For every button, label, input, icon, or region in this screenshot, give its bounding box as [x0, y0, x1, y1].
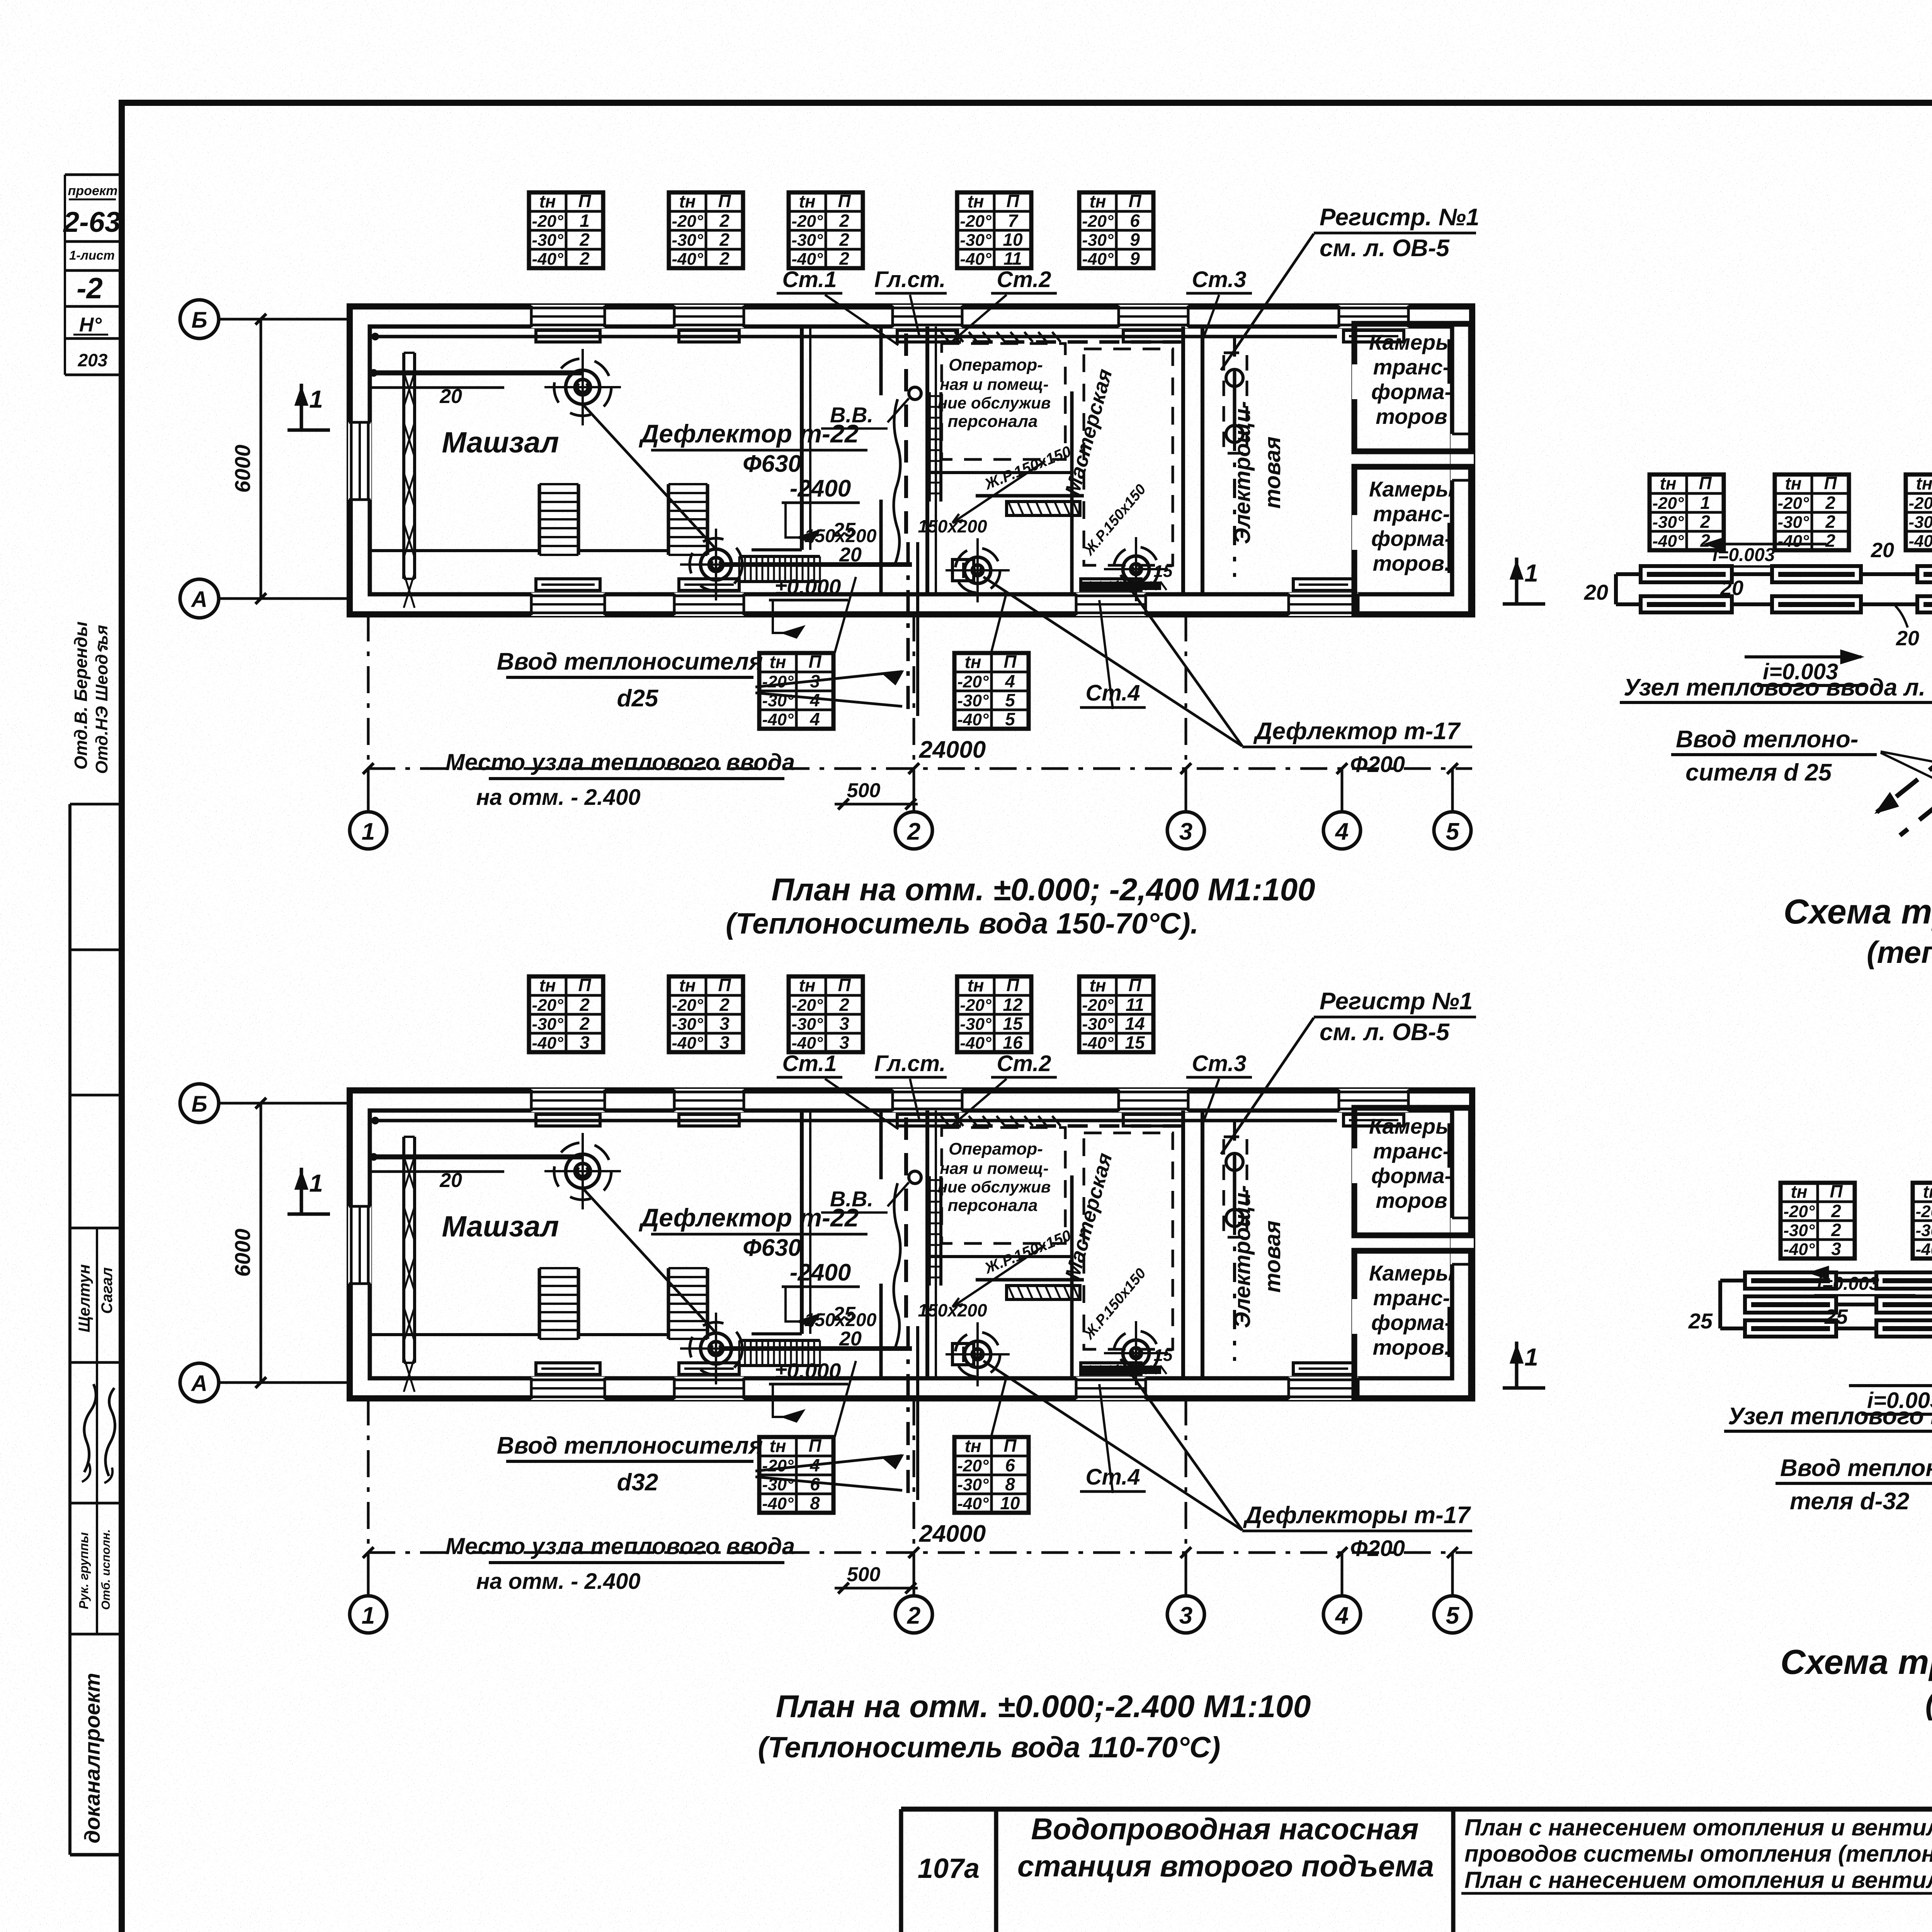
- svg-text:20: 20: [1896, 627, 1919, 650]
- svg-text:2: 2: [719, 248, 730, 269]
- svg-text:-30°: -30°: [1777, 513, 1809, 532]
- svg-text:Н°: Н°: [79, 314, 102, 336]
- svg-text:-40°: -40°: [762, 1494, 794, 1513]
- svg-text:Узел теплового ввода л. ОВ-3: Узел теплового ввода л. ОВ-3: [1728, 1403, 1932, 1430]
- svg-text:tн: tн: [964, 652, 981, 672]
- svg-text:-20°: -20°: [762, 1456, 794, 1475]
- svg-text:(Теплоноситель вода 110-70°С): (Теплоноситель вода 110-70°С): [758, 1731, 1221, 1764]
- svg-text:на отм. - 2.400: на отм. - 2.400: [476, 785, 640, 810]
- svg-text:торов: торов: [1376, 404, 1447, 429]
- svg-text:П: П: [1006, 191, 1019, 211]
- svg-text:П: П: [1003, 1435, 1017, 1456]
- svg-text:П: П: [578, 975, 591, 995]
- svg-text:tн: tн: [679, 975, 696, 995]
- svg-text:150x200: 150x200: [804, 1310, 877, 1330]
- svg-text:6: 6: [810, 1474, 820, 1494]
- svg-text:-2: -2: [77, 272, 103, 305]
- svg-text:3: 3: [810, 671, 820, 691]
- svg-text:П: П: [1003, 651, 1017, 672]
- svg-text:-20°: -20°: [1082, 996, 1114, 1015]
- svg-text:150x200: 150x200: [804, 526, 877, 546]
- svg-text:-30°: -30°: [532, 231, 563, 250]
- svg-text:tн: tн: [1660, 473, 1676, 493]
- svg-text:Регистр. №1: Регистр. №1: [1320, 204, 1479, 231]
- svg-text:1-лист: 1-лист: [69, 248, 115, 262]
- svg-text:Ввод теплоносителя: Ввод теплоносителя: [497, 648, 763, 675]
- svg-text:ние обслужив: ние обслужив: [938, 394, 1051, 412]
- svg-text:Ст.1: Ст.1: [782, 267, 837, 292]
- svg-text:2: 2: [1825, 493, 1835, 513]
- svg-text:Гл.ст.: Гл.ст.: [874, 1051, 946, 1076]
- svg-text:Ф630: Ф630: [743, 451, 801, 477]
- svg-text:Дефлекторы т-17: Дефлекторы т-17: [1243, 1502, 1471, 1529]
- svg-text:16: 16: [1003, 1032, 1023, 1053]
- svg-text:П: П: [838, 191, 851, 211]
- svg-text:-30°: -30°: [1783, 1221, 1815, 1240]
- svg-text:tн: tн: [1089, 191, 1106, 211]
- svg-text:tн: tн: [799, 975, 815, 995]
- svg-text:-30°: -30°: [957, 691, 989, 710]
- svg-text:tн: tн: [964, 1436, 981, 1456]
- svg-text:-20°: -20°: [532, 996, 563, 1015]
- svg-text:-20°: -20°: [1908, 494, 1932, 513]
- svg-text:3: 3: [839, 1014, 849, 1034]
- svg-text:10: 10: [1003, 230, 1023, 250]
- svg-text:2: 2: [1825, 512, 1835, 532]
- svg-text:Щелтун: Щелтун: [75, 1264, 93, 1333]
- svg-text:8: 8: [810, 1493, 820, 1513]
- svg-text:2: 2: [719, 230, 730, 250]
- svg-text:i=0.003: i=0.003: [1817, 1274, 1879, 1294]
- svg-text:tн: tн: [539, 975, 556, 995]
- svg-text:Ст.3: Ст.3: [1192, 267, 1246, 292]
- svg-text:7: 7: [1008, 211, 1019, 231]
- svg-text:План на отм. ±0.000; -2,400 М1: План на отм. ±0.000; -2,400 М1:100: [771, 872, 1315, 907]
- svg-text:Схема трубопроводов системы от: Схема трубопроводов системы отопления: [1781, 1643, 1932, 1682]
- svg-text:2: 2: [719, 211, 730, 231]
- svg-text:-40°: -40°: [1908, 532, 1932, 551]
- svg-text:А: А: [190, 587, 207, 612]
- svg-text:tн: tн: [1089, 975, 1106, 995]
- svg-text:форма-: форма-: [1371, 1163, 1452, 1188]
- svg-text:8: 8: [1005, 1474, 1015, 1494]
- svg-text:3: 3: [1179, 1602, 1192, 1629]
- svg-text:±0.000: ±0.000: [775, 1359, 841, 1383]
- svg-text:Ст.2: Ст.2: [997, 1051, 1051, 1076]
- svg-text:4: 4: [810, 1455, 820, 1475]
- svg-text:2: 2: [1831, 1220, 1841, 1240]
- svg-text:-2400: -2400: [790, 1259, 851, 1286]
- svg-text:4: 4: [1335, 818, 1349, 845]
- svg-text:1: 1: [1524, 1343, 1538, 1371]
- svg-text:теля d-32: теля d-32: [1790, 1488, 1909, 1515]
- svg-text:Ввод теплоноси-: Ввод теплоноси-: [1780, 1455, 1932, 1481]
- svg-text:d32: d32: [617, 1469, 658, 1496]
- svg-text:сителя d 25: сителя d 25: [1685, 759, 1832, 786]
- svg-text:Ф630: Ф630: [743, 1235, 801, 1261]
- svg-text:-30°: -30°: [762, 691, 794, 710]
- svg-text:2: 2: [839, 211, 849, 231]
- svg-text:tн: tн: [1785, 473, 1801, 493]
- svg-text:12: 12: [1003, 995, 1023, 1015]
- svg-text:Отб. исполн.: Отб. исполн.: [99, 1529, 112, 1610]
- svg-text:торов: торов: [1376, 1188, 1447, 1213]
- svg-text:(теплоноситель 110-70°С).: (теплоноситель 110-70°С).: [1925, 1686, 1932, 1721]
- svg-text:-20°: -20°: [791, 212, 823, 231]
- svg-text:см. л. ОВ-5: см. л. ОВ-5: [1320, 1019, 1450, 1046]
- svg-text:-2400: -2400: [790, 475, 851, 502]
- svg-text:персонала: персонала: [948, 1196, 1038, 1215]
- svg-text:Оператор-: Оператор-: [949, 1139, 1043, 1158]
- svg-text:транс-: транс-: [1373, 1139, 1450, 1163]
- svg-text:-30°: -30°: [791, 1015, 823, 1034]
- svg-text:5: 5: [1005, 709, 1015, 729]
- svg-text:6000: 6000: [230, 445, 255, 493]
- svg-text:-40°: -40°: [532, 250, 563, 269]
- svg-text:3: 3: [839, 1032, 849, 1053]
- svg-text:станция второго подъема: станция второго подъема: [1017, 1849, 1434, 1883]
- svg-text:Водопроводная насосная: Водопроводная насосная: [1031, 1812, 1418, 1846]
- svg-text:20: 20: [839, 1328, 862, 1350]
- svg-text:персонала: персонала: [948, 412, 1038, 431]
- svg-text:Машзал: Машзал: [442, 426, 559, 459]
- svg-text:tн: tн: [539, 191, 556, 211]
- svg-text:Отд.В. Беренды: Отд.В. Беренды: [71, 621, 91, 769]
- svg-text:2: 2: [579, 230, 590, 250]
- svg-text:6000: 6000: [230, 1229, 255, 1277]
- svg-text:15: 15: [1125, 1032, 1145, 1053]
- svg-text:Отд.НЭ Шеодรья: Отд.НЭ Шеодรья: [92, 625, 111, 774]
- svg-text:1: 1: [309, 1169, 323, 1197]
- svg-text:-40°: -40°: [1082, 250, 1114, 269]
- svg-text:Б: Б: [191, 1092, 207, 1117]
- svg-text:14: 14: [1125, 1014, 1145, 1034]
- svg-text:-40°: -40°: [1783, 1240, 1815, 1259]
- svg-text:-30°: -30°: [672, 231, 703, 250]
- svg-text:20: 20: [1720, 577, 1743, 600]
- svg-text:Ф200: Ф200: [1350, 752, 1405, 777]
- svg-text:П: П: [1006, 975, 1019, 995]
- svg-text:3: 3: [1179, 818, 1192, 845]
- svg-text:-30°: -30°: [791, 231, 823, 250]
- svg-text:4: 4: [1005, 671, 1015, 691]
- svg-text:транс-: транс-: [1373, 1286, 1450, 1310]
- svg-text:6: 6: [1130, 211, 1140, 231]
- svg-text:Ст.2: Ст.2: [997, 267, 1051, 292]
- svg-text:ная и помещ-: ная и помещ-: [940, 375, 1048, 393]
- svg-text:П: П: [1128, 975, 1141, 995]
- svg-text:-30°: -30°: [532, 1015, 563, 1034]
- svg-text:tн: tн: [967, 975, 984, 995]
- svg-text:15: 15: [1154, 1346, 1173, 1365]
- svg-text:2: 2: [579, 248, 590, 269]
- svg-text:доканалпроект: доканалпроект: [80, 1673, 104, 1843]
- svg-text:Камеры: Камеры: [1369, 477, 1454, 501]
- svg-text:1: 1: [1700, 493, 1710, 513]
- svg-text:П: П: [718, 191, 731, 211]
- svg-text:tн: tн: [1916, 473, 1932, 493]
- svg-text:Дефлектор т-17: Дефлектор т-17: [1253, 718, 1461, 745]
- svg-text:Узел теплового ввода л. ОВ-3: Узел теплового ввода л. ОВ-3: [1624, 674, 1932, 701]
- svg-text:tн: tн: [1923, 1182, 1932, 1202]
- svg-text:9: 9: [1130, 230, 1140, 250]
- svg-text:транс-: транс-: [1373, 355, 1450, 379]
- svg-text:(Теплоноситель вода 150-70°С): (Теплоноситель вода 150-70°С).: [726, 907, 1199, 940]
- svg-text:-20°: -20°: [791, 996, 823, 1015]
- svg-text:ная и помещ-: ная и помещ-: [940, 1159, 1048, 1177]
- svg-text:Регистр №1: Регистр №1: [1320, 988, 1473, 1015]
- svg-text:-30°: -30°: [1915, 1221, 1932, 1240]
- svg-text:20: 20: [1871, 539, 1894, 562]
- svg-text:9: 9: [1130, 248, 1140, 269]
- svg-text:проводов системы отопления (те: проводов системы отопления (теплоносител…: [1464, 1841, 1932, 1867]
- svg-text:А: А: [190, 1371, 207, 1396]
- svg-text:Дефлектор т-22: Дефлектор т-22: [639, 419, 859, 448]
- svg-text:2: 2: [907, 1602, 920, 1629]
- svg-text:-30°: -30°: [1082, 1015, 1114, 1034]
- svg-text:107а: 107а: [918, 1853, 980, 1884]
- svg-text:2: 2: [1825, 531, 1835, 551]
- svg-text:3: 3: [580, 1032, 590, 1053]
- svg-text:торов.: торов.: [1372, 1335, 1450, 1359]
- svg-text:24000: 24000: [919, 1520, 986, 1547]
- svg-text:П: П: [578, 191, 591, 211]
- svg-text:-40°: -40°: [957, 1494, 989, 1513]
- svg-text:-40°: -40°: [791, 250, 823, 269]
- svg-text:tн: tн: [967, 191, 984, 211]
- svg-text:форма-: форма-: [1371, 1310, 1452, 1335]
- svg-text:150x200: 150x200: [918, 516, 987, 536]
- svg-text:4: 4: [810, 709, 820, 729]
- svg-text:-40°: -40°: [532, 1034, 563, 1053]
- svg-text:-20°: -20°: [762, 672, 794, 691]
- svg-text:-40°: -40°: [1777, 532, 1809, 551]
- svg-text:Ф200: Ф200: [1350, 1536, 1405, 1561]
- svg-text:tн: tн: [769, 1436, 786, 1456]
- svg-text:-30°: -30°: [762, 1475, 794, 1494]
- svg-text:-30°: -30°: [960, 1015, 992, 1034]
- svg-text:-30°: -30°: [1652, 513, 1684, 532]
- svg-text:на отм. - 2.400: на отм. - 2.400: [476, 1569, 640, 1594]
- svg-text:5: 5: [1446, 818, 1460, 845]
- svg-text:П: П: [718, 975, 731, 995]
- svg-text:В.В.: В.В.: [830, 403, 873, 427]
- svg-text:20: 20: [839, 544, 862, 566]
- svg-text:товая: товая: [1260, 437, 1285, 509]
- svg-text:-20°: -20°: [1777, 494, 1809, 513]
- svg-text:2: 2: [1831, 1201, 1841, 1221]
- svg-text:tн: tн: [769, 652, 786, 672]
- svg-text:-20°: -20°: [960, 996, 992, 1015]
- svg-text:-20°: -20°: [1783, 1202, 1815, 1221]
- svg-text:торов.: торов.: [1372, 551, 1450, 575]
- svg-text:±0.000: ±0.000: [775, 575, 841, 599]
- svg-text:500: 500: [847, 1563, 881, 1586]
- svg-text:Рук. группы: Рук. группы: [77, 1532, 91, 1609]
- svg-text:1: 1: [309, 385, 323, 413]
- svg-text:20: 20: [439, 385, 462, 408]
- svg-text:Ст.1: Ст.1: [782, 1051, 837, 1076]
- svg-text:П: П: [838, 975, 851, 995]
- svg-text:4: 4: [810, 690, 820, 710]
- svg-text:Сагал: Сагал: [99, 1267, 116, 1314]
- svg-text:-40°: -40°: [791, 1034, 823, 1053]
- svg-text:-30°: -30°: [672, 1015, 703, 1034]
- svg-text:-40°: -40°: [762, 710, 794, 729]
- svg-text:Камеры: Камеры: [1369, 1114, 1454, 1138]
- svg-text:Оператор-: Оператор-: [949, 355, 1043, 374]
- svg-text:2: 2: [839, 230, 849, 250]
- svg-text:Место узла теплового ввода: Место узла теплового ввода: [446, 1533, 795, 1559]
- svg-text:ние обслужив: ние обслужив: [938, 1178, 1051, 1196]
- svg-text:Ст.3: Ст.3: [1192, 1051, 1246, 1076]
- svg-text:(теплоноситель вода 150-70°С).: (теплоноситель вода 150-70°С).: [1867, 935, 1932, 969]
- svg-text:tн: tн: [799, 191, 815, 211]
- svg-text:Схема трубопроводов системы от: Схема трубопроводов системы отопления: [1784, 893, 1932, 931]
- svg-text:П: П: [1699, 473, 1712, 493]
- svg-text:-20°: -20°: [957, 1456, 989, 1475]
- svg-text:-40°: -40°: [672, 1034, 703, 1053]
- svg-text:10: 10: [1000, 1493, 1020, 1513]
- svg-text:План с нанесением отопления и: План с нанесением отопления и вентиляции…: [1464, 1815, 1932, 1840]
- svg-text:форма-: форма-: [1371, 379, 1452, 404]
- svg-text:2: 2: [907, 818, 920, 845]
- svg-text:-30°: -30°: [960, 231, 992, 250]
- svg-text:2: 2: [579, 1014, 590, 1034]
- svg-text:Б: Б: [191, 308, 207, 333]
- svg-text:План на отм. ±0.000;-2.400 М1:: План на отм. ±0.000;-2.400 М1:100: [776, 1689, 1311, 1724]
- svg-text:-20°: -20°: [957, 672, 989, 691]
- svg-text:-20°: -20°: [1082, 212, 1114, 231]
- svg-text:1: 1: [1524, 559, 1538, 587]
- svg-text:4: 4: [1335, 1602, 1349, 1629]
- svg-text:-20°: -20°: [1915, 1202, 1932, 1221]
- svg-text:В.В.: В.В.: [830, 1187, 873, 1211]
- svg-text:-20°: -20°: [672, 996, 703, 1015]
- svg-text:1: 1: [362, 1602, 375, 1629]
- svg-text:2-63: 2-63: [63, 206, 121, 238]
- svg-text:-30°: -30°: [1082, 231, 1114, 250]
- svg-text:2: 2: [1700, 512, 1710, 532]
- svg-text:3: 3: [1831, 1239, 1841, 1259]
- svg-text:1: 1: [362, 818, 375, 845]
- svg-text:25: 25: [1824, 1305, 1848, 1328]
- svg-text:Гл.ст.: Гл.ст.: [874, 267, 946, 292]
- svg-text:2: 2: [719, 995, 730, 1015]
- svg-text:-40°: -40°: [1082, 1034, 1114, 1053]
- svg-text:см. л. ОВ-5: см. л. ОВ-5: [1320, 235, 1450, 262]
- svg-text:tн: tн: [679, 191, 696, 211]
- svg-text:24000: 24000: [919, 736, 986, 763]
- svg-text:Ввод теплоносителя: Ввод теплоносителя: [497, 1432, 763, 1459]
- svg-text:товая: товая: [1260, 1221, 1285, 1293]
- svg-text:tн: tн: [1791, 1182, 1807, 1202]
- svg-text:d25: d25: [617, 685, 659, 712]
- svg-text:-40°: -40°: [1652, 532, 1684, 551]
- svg-text:План с нанесением отопления и: План с нанесением отопления и вентиляции: [1464, 1867, 1932, 1893]
- svg-text:-40°: -40°: [957, 710, 989, 729]
- svg-text:2: 2: [579, 995, 590, 1015]
- svg-text:203: 203: [78, 350, 108, 370]
- svg-text:1: 1: [580, 211, 590, 231]
- svg-text:-20°: -20°: [672, 212, 703, 231]
- svg-text:Ввод теплоно-: Ввод теплоно-: [1676, 726, 1858, 753]
- svg-text:15: 15: [1154, 562, 1173, 581]
- svg-text:Машзал: Машзал: [442, 1210, 559, 1243]
- svg-text:-40°: -40°: [960, 250, 992, 269]
- svg-text:-20°: -20°: [960, 212, 992, 231]
- svg-text:Дефлектор т-22: Дефлектор т-22: [639, 1203, 859, 1232]
- svg-text:Место узла теплового ввода: Место узла теплового ввода: [446, 749, 795, 775]
- svg-text:2: 2: [839, 248, 849, 269]
- svg-text:3: 3: [719, 1014, 730, 1034]
- svg-text:-30°: -30°: [957, 1475, 989, 1494]
- svg-text:3: 3: [719, 1032, 730, 1053]
- svg-text:П: П: [808, 651, 821, 672]
- svg-text:-40°: -40°: [672, 250, 703, 269]
- svg-text:-40°: -40°: [960, 1034, 992, 1053]
- svg-text:-40°: -40°: [1915, 1240, 1932, 1259]
- svg-text:-30°: -30°: [1908, 513, 1932, 532]
- svg-text:П: П: [1824, 473, 1837, 493]
- svg-text:П: П: [1128, 191, 1141, 211]
- svg-text:500: 500: [847, 779, 881, 802]
- svg-text:форма-: форма-: [1371, 526, 1452, 551]
- svg-text:15: 15: [1003, 1014, 1023, 1034]
- svg-text:20: 20: [439, 1169, 462, 1192]
- svg-text:5: 5: [1005, 690, 1015, 710]
- svg-text:20: 20: [1584, 580, 1608, 604]
- svg-text:2: 2: [1700, 531, 1710, 551]
- svg-text:П: П: [1830, 1181, 1843, 1201]
- svg-text:11: 11: [1126, 995, 1144, 1015]
- svg-text:25: 25: [1688, 1309, 1713, 1333]
- svg-text:-20°: -20°: [532, 212, 563, 231]
- svg-text:150x200: 150x200: [918, 1300, 987, 1320]
- svg-text:проект: проект: [68, 184, 118, 198]
- svg-text:-20°: -20°: [1652, 494, 1684, 513]
- svg-text:транс-: транс-: [1373, 502, 1450, 526]
- svg-text:П: П: [808, 1435, 821, 1456]
- svg-text:Камеры: Камеры: [1369, 1261, 1454, 1285]
- svg-text:11: 11: [1003, 248, 1022, 269]
- svg-text:2: 2: [839, 995, 849, 1015]
- svg-text:5: 5: [1446, 1602, 1460, 1629]
- svg-text:Камеры: Камеры: [1369, 330, 1454, 354]
- svg-text:6: 6: [1005, 1455, 1015, 1475]
